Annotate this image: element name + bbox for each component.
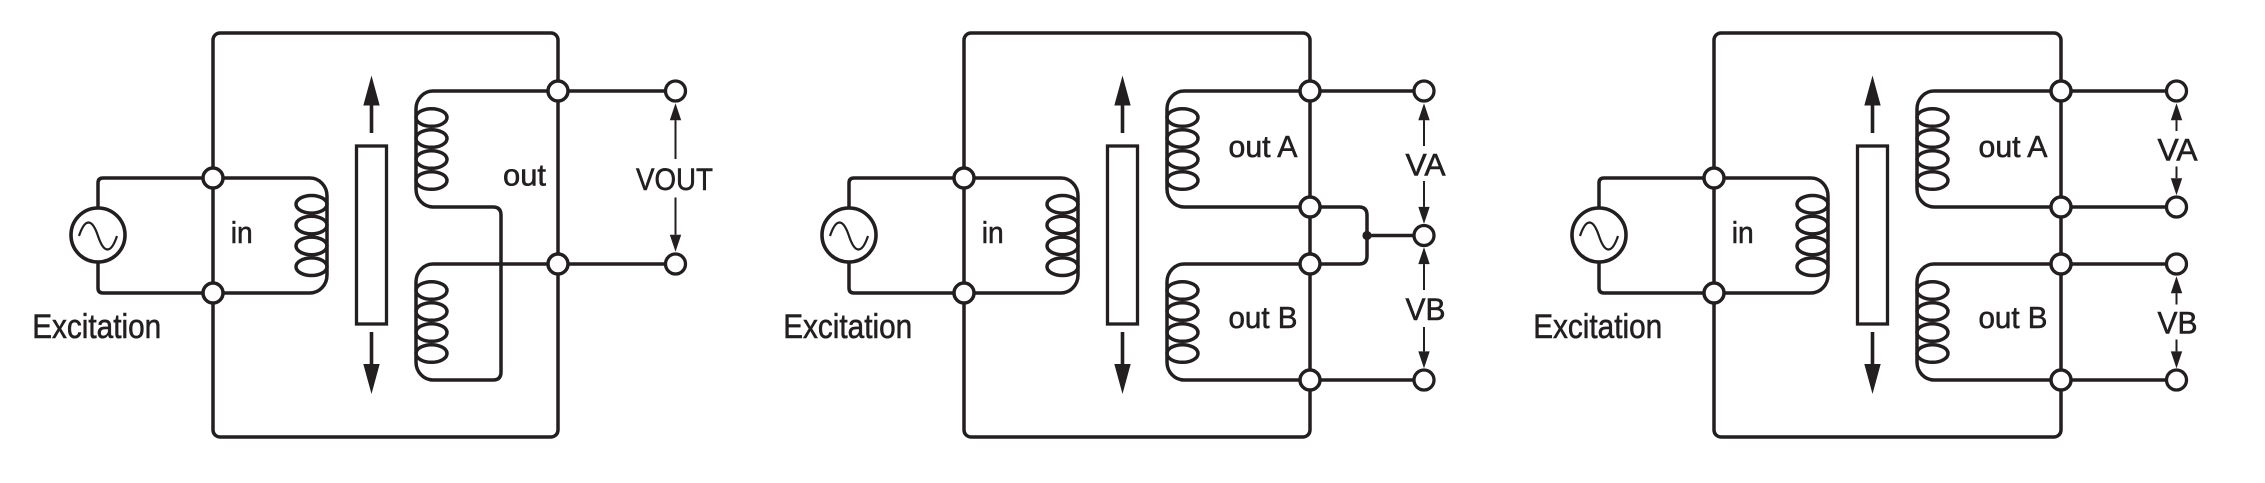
movable core (schematic 3) bbox=[1858, 146, 1888, 324]
wire primary bottom bbox=[1714, 291, 1811, 295]
terminal VA+ bbox=[1414, 81, 1434, 101]
svg-text:VB: VB bbox=[1406, 291, 1446, 327]
wire excitation top bbox=[98, 178, 213, 208]
svg-text:Excitation: Excitation bbox=[1533, 308, 1662, 346]
core motion arrow down bbox=[363, 332, 379, 394]
arrow VA upper bbox=[1418, 103, 1429, 146]
arrow VA lower bbox=[1418, 181, 1429, 224]
svg-text:Excitation: Excitation bbox=[783, 308, 912, 346]
svg-text:VA: VA bbox=[1406, 147, 1446, 183]
arrow VB upper bbox=[1418, 247, 1429, 290]
wire primary top bbox=[213, 176, 310, 180]
arrow VB upper bbox=[2171, 276, 2182, 304]
node secondary B bottom bbox=[2051, 370, 2071, 390]
junction dot centre-tap bbox=[1362, 231, 1371, 240]
svg-text:VA: VA bbox=[2158, 132, 2198, 168]
wire secondary B top bbox=[433, 262, 558, 266]
wire primary top bbox=[1714, 176, 1811, 180]
secondary coil L1c (lower) bbox=[416, 264, 447, 380]
terminal VB- bbox=[1414, 370, 1434, 390]
outer housing rectangle (schematic 3) bbox=[1714, 33, 2061, 437]
node secondary A bottom bbox=[1300, 197, 1320, 217]
primary coil L3a 'in' bbox=[1797, 178, 1828, 293]
ac excitation source V2 bbox=[822, 208, 876, 262]
terminal VB+ bbox=[2167, 254, 2187, 274]
node secondary B bottom bbox=[1300, 370, 1320, 390]
svg-text:out: out bbox=[503, 158, 546, 193]
core motion arrow up bbox=[363, 76, 379, 134]
wire excitation bottom bbox=[849, 262, 964, 293]
wire output A top bbox=[1310, 89, 1424, 93]
wire secondary A bottom bbox=[1184, 205, 1310, 209]
terminal VOUT+ bbox=[666, 81, 686, 101]
core motion arrow up bbox=[1114, 76, 1130, 134]
wire series link A-bottom to B-bottom bbox=[433, 207, 501, 380]
wire secondary A top bbox=[1934, 89, 2061, 93]
core motion arrow down bbox=[1864, 332, 1880, 394]
node excitation bottom (schematic 2) bbox=[954, 283, 974, 303]
node secondary top bbox=[548, 81, 568, 101]
wire output B top bbox=[2061, 262, 2177, 266]
movable core (schematic 1) bbox=[357, 146, 387, 324]
outer housing rectangle (schematic 2) bbox=[964, 33, 1310, 437]
secondary coil L3b (upper) bbox=[1917, 91, 1948, 207]
svg-text:out B: out B bbox=[1979, 300, 2048, 335]
wire primary top bbox=[964, 176, 1061, 180]
terminal VB- bbox=[2167, 370, 2187, 390]
node secondary A top bbox=[1300, 81, 1320, 101]
node excitation bottom (schematic 3) bbox=[1704, 283, 1724, 303]
wire excitation bottom bbox=[98, 262, 213, 293]
terminal centre bbox=[1414, 226, 1434, 246]
wire output A top bbox=[2061, 89, 2177, 93]
terminal VOUT- bbox=[666, 254, 686, 274]
wire secondary B top bbox=[1184, 262, 1310, 266]
secondary coil L1b (upper) bbox=[416, 91, 447, 207]
arrow VOUT upper bbox=[670, 103, 681, 159]
node excitation bottom (schematic 1) bbox=[203, 283, 223, 303]
wire secondary B top bbox=[1934, 262, 2061, 266]
core motion arrow down bbox=[1114, 332, 1130, 394]
node excitation top (schematic 3) bbox=[1704, 168, 1724, 188]
wire excitation top bbox=[849, 178, 964, 208]
svg-text:out A: out A bbox=[1979, 129, 2048, 164]
wire primary bottom bbox=[964, 291, 1061, 295]
wire output bottom bbox=[558, 262, 676, 266]
wire secondary B bottom bbox=[1184, 378, 1310, 382]
wire secondary B bottom bbox=[1934, 378, 2061, 382]
svg-text:Excitation: Excitation bbox=[32, 308, 161, 346]
arrow VB lower bbox=[2171, 340, 2182, 369]
wire output B bottom bbox=[2061, 378, 2177, 382]
secondary coil L3c (lower) bbox=[1917, 264, 1948, 380]
movable core (schematic 2) bbox=[1108, 146, 1138, 324]
wire secondary A top bbox=[433, 89, 558, 93]
wire primary bottom bbox=[213, 291, 310, 295]
node excitation top (schematic 2) bbox=[954, 168, 974, 188]
wire secondary A top bbox=[1184, 89, 1310, 93]
svg-text:out A: out A bbox=[1229, 129, 1298, 164]
terminal VA+ bbox=[2167, 81, 2187, 101]
arrow VB lower bbox=[1418, 327, 1429, 368]
wire output top bbox=[558, 89, 676, 93]
secondary coil L2b (upper) bbox=[1167, 91, 1198, 207]
terminal VA- bbox=[2167, 197, 2187, 217]
svg-text:out B: out B bbox=[1229, 300, 1298, 335]
wire output B bottom bbox=[1310, 378, 1424, 382]
node secondary B top bbox=[2051, 254, 2071, 274]
wire output A bottom bbox=[2061, 205, 2177, 209]
arrow VA lower bbox=[2171, 167, 2182, 196]
primary coil L1a 'in' bbox=[296, 178, 327, 293]
wire centre-tap to terminal bbox=[1367, 234, 1424, 238]
arrow VA upper bbox=[2171, 103, 2182, 131]
arrow VOUT lower bbox=[670, 198, 681, 252]
secondary coil L2c (lower) bbox=[1167, 264, 1198, 380]
primary coil L2a 'in' bbox=[1047, 178, 1078, 293]
svg-text:in: in bbox=[231, 215, 253, 250]
node excitation top (schematic 1) bbox=[203, 168, 223, 188]
wire secondary A bottom bbox=[1934, 205, 2061, 209]
outer housing rectangle (schematic 1) bbox=[213, 33, 558, 437]
wire centre-tap bus bbox=[1310, 207, 1367, 264]
svg-text:VOUT: VOUT bbox=[636, 161, 713, 197]
node secondary B top bbox=[1300, 254, 1320, 274]
svg-text:in: in bbox=[1732, 215, 1754, 250]
node secondary bottom bbox=[548, 254, 568, 274]
node secondary A top bbox=[2051, 81, 2071, 101]
ac excitation source V3 bbox=[1572, 208, 1626, 262]
wire excitation bottom bbox=[1599, 262, 1714, 293]
node secondary A bottom bbox=[2051, 197, 2071, 217]
svg-text:in: in bbox=[982, 215, 1004, 250]
ac excitation source V1 bbox=[71, 208, 125, 262]
core motion arrow up bbox=[1864, 76, 1880, 134]
wire excitation top bbox=[1599, 178, 1714, 208]
svg-text:VB: VB bbox=[2158, 305, 2198, 341]
